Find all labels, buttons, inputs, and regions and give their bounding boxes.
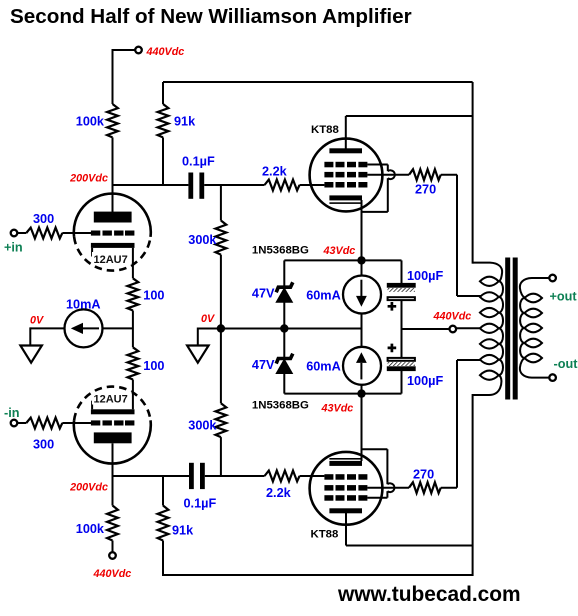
wire 2.2k to KT88 grid (300, 184, 325, 186)
current source I3 60mA (bottom) (343, 347, 381, 385)
wire V2 screen to 270 (367, 487, 409, 489)
wire 300 to grid bottom (62, 422, 91, 424)
wire V1 cathode down (361, 200, 363, 260)
grid of U2 (91, 420, 134, 425)
wire top 43V to CS (361, 260, 363, 276)
wire 100k to plate rail (112, 137, 114, 212)
svg-text:47V: 47V (252, 358, 275, 372)
svg-text:300k: 300k (188, 233, 217, 247)
wire KT88 plate line top (346, 116, 473, 149)
wire terminal to 300 (18, 232, 27, 234)
svg-text:100k: 100k (76, 115, 105, 129)
label 47V bottom (252, 358, 275, 372)
transformer T1 core (505, 258, 518, 400)
svg-text:1N5368BG: 1N5368BG (252, 245, 309, 257)
label 0V right (201, 313, 215, 325)
footer www.tubecad.com (337, 583, 521, 606)
wire 270 to UL tap top (441, 175, 457, 296)
wire 0V node to 300k bottom (220, 329, 222, 404)
svg-text:2.2k: 2.2k (266, 486, 292, 500)
svg-text:0.1µF: 0.1µF (184, 497, 217, 511)
wire UL tap top (457, 295, 486, 297)
wire 270 to UL tap bottom (441, 360, 457, 488)
wire plate node vertical bottom (472, 394, 474, 576)
label 100uF top (407, 269, 443, 283)
node -out terminal (549, 374, 556, 381)
wire CS to 43V bottom (361, 385, 363, 394)
cathode of U2 (91, 380, 135, 415)
plate of V2 (329, 508, 362, 513)
resistor 300k (bottom) (216, 403, 227, 437)
ground left (20, 346, 42, 363)
label 60mA top (306, 289, 341, 303)
triode U2 12AU7 envelope (dashed top arc) (74, 387, 150, 421)
label 1N5368BG top (252, 245, 309, 257)
wire rail down to 300k top (220, 185, 222, 221)
grid g3 row of V2 (324, 485, 367, 491)
plus sign bottom cap (388, 344, 397, 353)
wire bottom feedback line (163, 574, 473, 576)
label 100uF bottom (407, 374, 443, 388)
wire 2.2k to KT88 grid bottom (300, 475, 325, 477)
wire 43V bottom rail (284, 393, 401, 395)
cathode of U1 (91, 243, 135, 278)
svg-text:+in: +in (4, 241, 23, 255)
node 0V junction dot (217, 324, 225, 332)
grid of U1 (91, 231, 134, 236)
plus sign top cap (388, 302, 397, 311)
current source I2 60mA (top) (343, 276, 381, 314)
resistor 100 (top) (128, 278, 139, 310)
svg-text:Second Half of New Williamson: Second Half of New Williamson Amplifier (10, 5, 412, 28)
wire plate node vertical top (472, 82, 474, 264)
resistor 270 (top) (409, 169, 441, 180)
label 0.1uF top (182, 155, 215, 169)
wire U2 plate down (112, 443, 114, 476)
svg-text:91k: 91k (174, 115, 196, 129)
label 47V top (252, 287, 275, 301)
grid g2 row of V1 (324, 162, 367, 168)
wire terminal to 100k column (113, 49, 136, 51)
label +in (4, 241, 23, 255)
resistor 91k (top) (158, 104, 169, 137)
svg-text:43Vdc: 43Vdc (321, 403, 354, 415)
svg-text:91k: 91k (172, 524, 194, 538)
svg-text:1N5368BG: 1N5368BG (252, 400, 309, 412)
wire V1 g2 tie (362, 165, 388, 212)
resistor 2.2k (top) (265, 180, 300, 191)
svg-text:12AU7: 12AU7 (94, 394, 128, 406)
label +out (550, 290, 578, 304)
ground right (187, 346, 209, 363)
svg-text:0V: 0V (30, 315, 44, 327)
wire 440V to terminal (402, 328, 450, 330)
label 300k bottom (188, 419, 217, 433)
label 300k top (188, 233, 217, 247)
label 91k bottom (172, 524, 194, 538)
plate of U2 (94, 432, 132, 443)
wire zener to 0V (283, 302, 285, 357)
wire rail to 100k bottom (112, 476, 114, 506)
svg-text:-in: -in (4, 406, 20, 420)
resistor 300k (top) (216, 221, 227, 255)
label 2.2k top (262, 165, 288, 179)
svg-text:100µF: 100µF (407, 374, 443, 388)
label 100 bottom (143, 359, 164, 373)
svg-text:2.2k: 2.2k (262, 165, 288, 179)
label -out (554, 357, 578, 371)
label 100k top (76, 115, 105, 129)
resistor 100 (bottom) (128, 347, 139, 379)
label 200Vdc bottom (69, 482, 108, 494)
wire hop over screen wire top (388, 170, 395, 179)
capacitor 0.1uF (top) (188, 173, 204, 199)
wire zener column bottom (283, 373, 285, 393)
wire between CS (361, 313, 363, 348)
svg-text:0V: 0V (201, 313, 215, 325)
label 0V left (30, 315, 44, 327)
wire CS to ground (30, 327, 64, 345)
label 2.2k bottom (266, 486, 292, 500)
wire 200V rail to cap (113, 184, 189, 186)
pentode V1 KT88 envelope (310, 139, 383, 212)
wire V2 plate down (346, 513, 473, 546)
svg-text:100µF: 100µF (407, 269, 443, 283)
transformer T1 primary winding (473, 263, 503, 395)
wire 91k top to feedback line (162, 82, 164, 104)
label 100 top (143, 289, 164, 303)
svg-text:43Vdc: 43Vdc (323, 245, 356, 257)
wire 0V to ground right (197, 328, 199, 346)
resistor 2.2k (bottom) (265, 471, 300, 482)
wire CS to cathode column (103, 327, 133, 329)
wire 100k to terminal bottom (112, 541, 114, 552)
svg-text:100: 100 (143, 289, 164, 303)
wire 200V rail bottom (113, 475, 190, 477)
resistor 300 (top input) (26, 228, 62, 239)
svg-text:-out: -out (554, 357, 578, 371)
svg-text:10mA: 10mA (66, 298, 101, 312)
wire terminal to primary CT (457, 327, 485, 329)
label 440Vdc top (146, 46, 185, 58)
label KT88 top (311, 124, 339, 136)
wire 43V top to cap (401, 260, 403, 283)
wire 300 to grid (62, 232, 91, 234)
svg-text:47V: 47V (252, 287, 275, 301)
plate of V1 (329, 148, 362, 153)
svg-text:270: 270 (413, 468, 434, 482)
wire 43V top rail (284, 259, 401, 261)
node +in terminal (11, 230, 18, 237)
label 12AU7 bottom (92, 392, 132, 406)
label 300 bottom (33, 438, 54, 452)
wire V2 g2 tie (362, 449, 388, 498)
current source I1 10mA (65, 309, 103, 347)
capacitor C2 100uF (bottom) (387, 358, 416, 371)
label 440Vdc mid (433, 311, 472, 323)
label KT88 bottom (311, 529, 339, 541)
grid g1 row of V2 (324, 474, 367, 480)
svg-text:300k: 300k (188, 419, 217, 433)
grid g1 row of V1 (324, 182, 367, 188)
node 43V top dot (357, 256, 365, 264)
label 12AU7 top (92, 252, 132, 266)
svg-text:100k: 100k (76, 522, 105, 536)
label 200Vdc top (69, 173, 108, 185)
label 270 top (415, 183, 436, 197)
node 43V bottom dot (357, 389, 365, 397)
svg-text:300: 300 (33, 438, 54, 452)
label 60mA bottom (306, 360, 341, 374)
capacitor C1 100uF (top) (387, 283, 416, 300)
resistor 100k (bottom) (107, 506, 118, 541)
resistor 270 (bottom) (409, 482, 441, 493)
svg-text:200Vdc: 200Vdc (69, 482, 108, 494)
node zener 0V dot (280, 324, 288, 332)
wire V1 screen to 270 (367, 174, 409, 176)
svg-text:12AU7: 12AU7 (94, 254, 128, 266)
resistor 100k (top) (107, 104, 118, 137)
wire 440V down to 100k (112, 49, 114, 104)
resistor 300 (bottom input) (26, 418, 62, 429)
svg-text:60mA: 60mA (306, 360, 341, 374)
grid g2 row of V2 (324, 495, 367, 501)
plate of U1 (94, 212, 132, 223)
label 300 top (33, 212, 54, 226)
svg-text:440Vdc: 440Vdc (433, 311, 472, 323)
label 100k bottom (76, 522, 105, 536)
svg-text:300: 300 (33, 212, 54, 226)
wire 91k to bottom feedback line (162, 541, 164, 577)
node 440Vdc top terminal (135, 47, 142, 54)
pentode V2 KT88 envelope (310, 452, 383, 525)
svg-text:www.tubecad.com: www.tubecad.com (337, 583, 521, 606)
wire cap to 2.2k bottom (205, 475, 265, 477)
svg-text:440Vdc: 440Vdc (93, 568, 132, 580)
wire hop over screen wire bottom (387, 483, 394, 492)
node 440Vdc bottom terminal (109, 552, 116, 559)
transformer T1 secondary winding (520, 278, 550, 378)
label -in (4, 406, 20, 420)
node -in terminal (11, 420, 18, 427)
node +out terminal (549, 275, 556, 282)
svg-text:100: 100 (143, 359, 164, 373)
grid g3 row of V1 (324, 172, 367, 178)
label 440Vdc bottom (93, 568, 132, 580)
svg-text:0.1µF: 0.1µF (182, 155, 215, 169)
label 0.1uF bottom (184, 497, 217, 511)
wire feedback top line (163, 81, 473, 83)
wire 91k bottom to 200V rail (162, 137, 164, 186)
wire 0V rail (198, 328, 362, 330)
diode D2 zener 47V (bottom) (276, 354, 293, 374)
node 440Vdc mid terminal (450, 326, 457, 333)
label 91k top (174, 115, 196, 129)
label 270 bottom (413, 468, 434, 482)
label 10mA (66, 298, 101, 312)
capacitor 0.1uF (bottom) (189, 463, 205, 489)
svg-text:+out: +out (550, 290, 578, 304)
wire UL tap bottom (457, 359, 486, 361)
triode U1 12AU7 envelope (dashed bottom arc) (74, 237, 150, 271)
wire 300k bottom to rail (220, 437, 222, 476)
wire cap to 2.2k (204, 184, 264, 186)
wire between 100s (132, 311, 134, 348)
wire V2 cathode up (361, 394, 363, 461)
label 1N5368BG bottom (252, 400, 309, 412)
wire cap to 43V bottom (401, 371, 403, 394)
svg-text:270: 270 (415, 183, 436, 197)
wire 300k to 0V node (220, 255, 222, 329)
wire rail to 91k bottom (162, 476, 164, 506)
wire terminal to 300 bottom (18, 422, 27, 424)
svg-text:440Vdc: 440Vdc (146, 46, 185, 58)
wire cap to 440V rail (401, 300, 403, 358)
svg-text:200Vdc: 200Vdc (69, 173, 108, 185)
triode U1 12AU7 envelope (solid top arc) (74, 194, 151, 237)
label 43Vdc top (323, 245, 356, 257)
resistor 91k (bottom) (158, 506, 169, 541)
diode D1 zener 47V (top) (276, 282, 293, 302)
svg-text:KT88: KT88 (311, 124, 339, 136)
cathode of V1 (329, 195, 362, 204)
svg-text:KT88: KT88 (311, 529, 339, 541)
wire zener column top (283, 260, 285, 286)
title text (10, 5, 412, 28)
cathode of V2 (329, 458, 362, 466)
triode U2 12AU7 envelope (solid bottom arc) (74, 420, 151, 463)
svg-text:60mA: 60mA (306, 289, 341, 303)
label 43Vdc bottom (321, 403, 354, 415)
